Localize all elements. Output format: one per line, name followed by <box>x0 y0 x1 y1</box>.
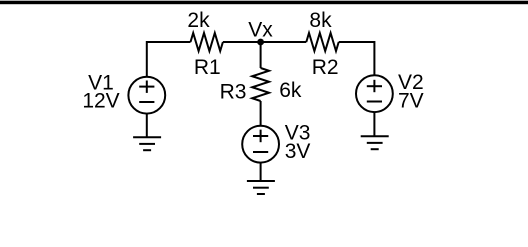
ground for V1 <box>133 137 161 150</box>
resistor R2 <box>306 33 338 51</box>
voltage source V1 labels <box>82 71 119 112</box>
wire from node Vx down to R3 <box>260 42 262 68</box>
voltage source V2 labels <box>398 71 424 113</box>
wire from V1 top to R1 left lead <box>147 42 191 77</box>
svg-text:Vx: Vx <box>248 18 273 41</box>
svg-text:12V: 12V <box>82 89 119 112</box>
svg-text:2k: 2k <box>187 9 210 32</box>
svg-text:R1: R1 <box>194 56 221 79</box>
voltage source V3 labels <box>285 121 311 163</box>
wire from V1 bottom to ground <box>146 114 148 138</box>
wire from V3 bottom to ground <box>260 163 262 181</box>
svg-text:3V: 3V <box>285 140 311 163</box>
wire from node Vx to R2 left lead <box>261 41 307 43</box>
voltage source V3 <box>242 126 279 163</box>
svg-text:6k: 6k <box>279 79 302 102</box>
voltage source V2 <box>356 75 393 112</box>
resistor R3 <box>252 68 269 101</box>
wire from R1 to node Vx <box>223 41 261 43</box>
ground for V2 <box>361 136 389 149</box>
svg-text:R3: R3 <box>220 80 247 103</box>
node Vx junction dot <box>257 39 264 46</box>
wire from V2 bottom to ground <box>373 112 375 136</box>
ground for V3 <box>247 181 275 194</box>
resistor R1 <box>191 33 223 51</box>
svg-text:7V: 7V <box>398 90 424 113</box>
wire from R2 to V2 top <box>339 42 375 75</box>
svg-text:R2: R2 <box>312 56 339 79</box>
wire from R3 to V3 top <box>260 101 262 126</box>
svg-text:8k: 8k <box>309 9 332 32</box>
voltage source V1 <box>128 77 165 114</box>
